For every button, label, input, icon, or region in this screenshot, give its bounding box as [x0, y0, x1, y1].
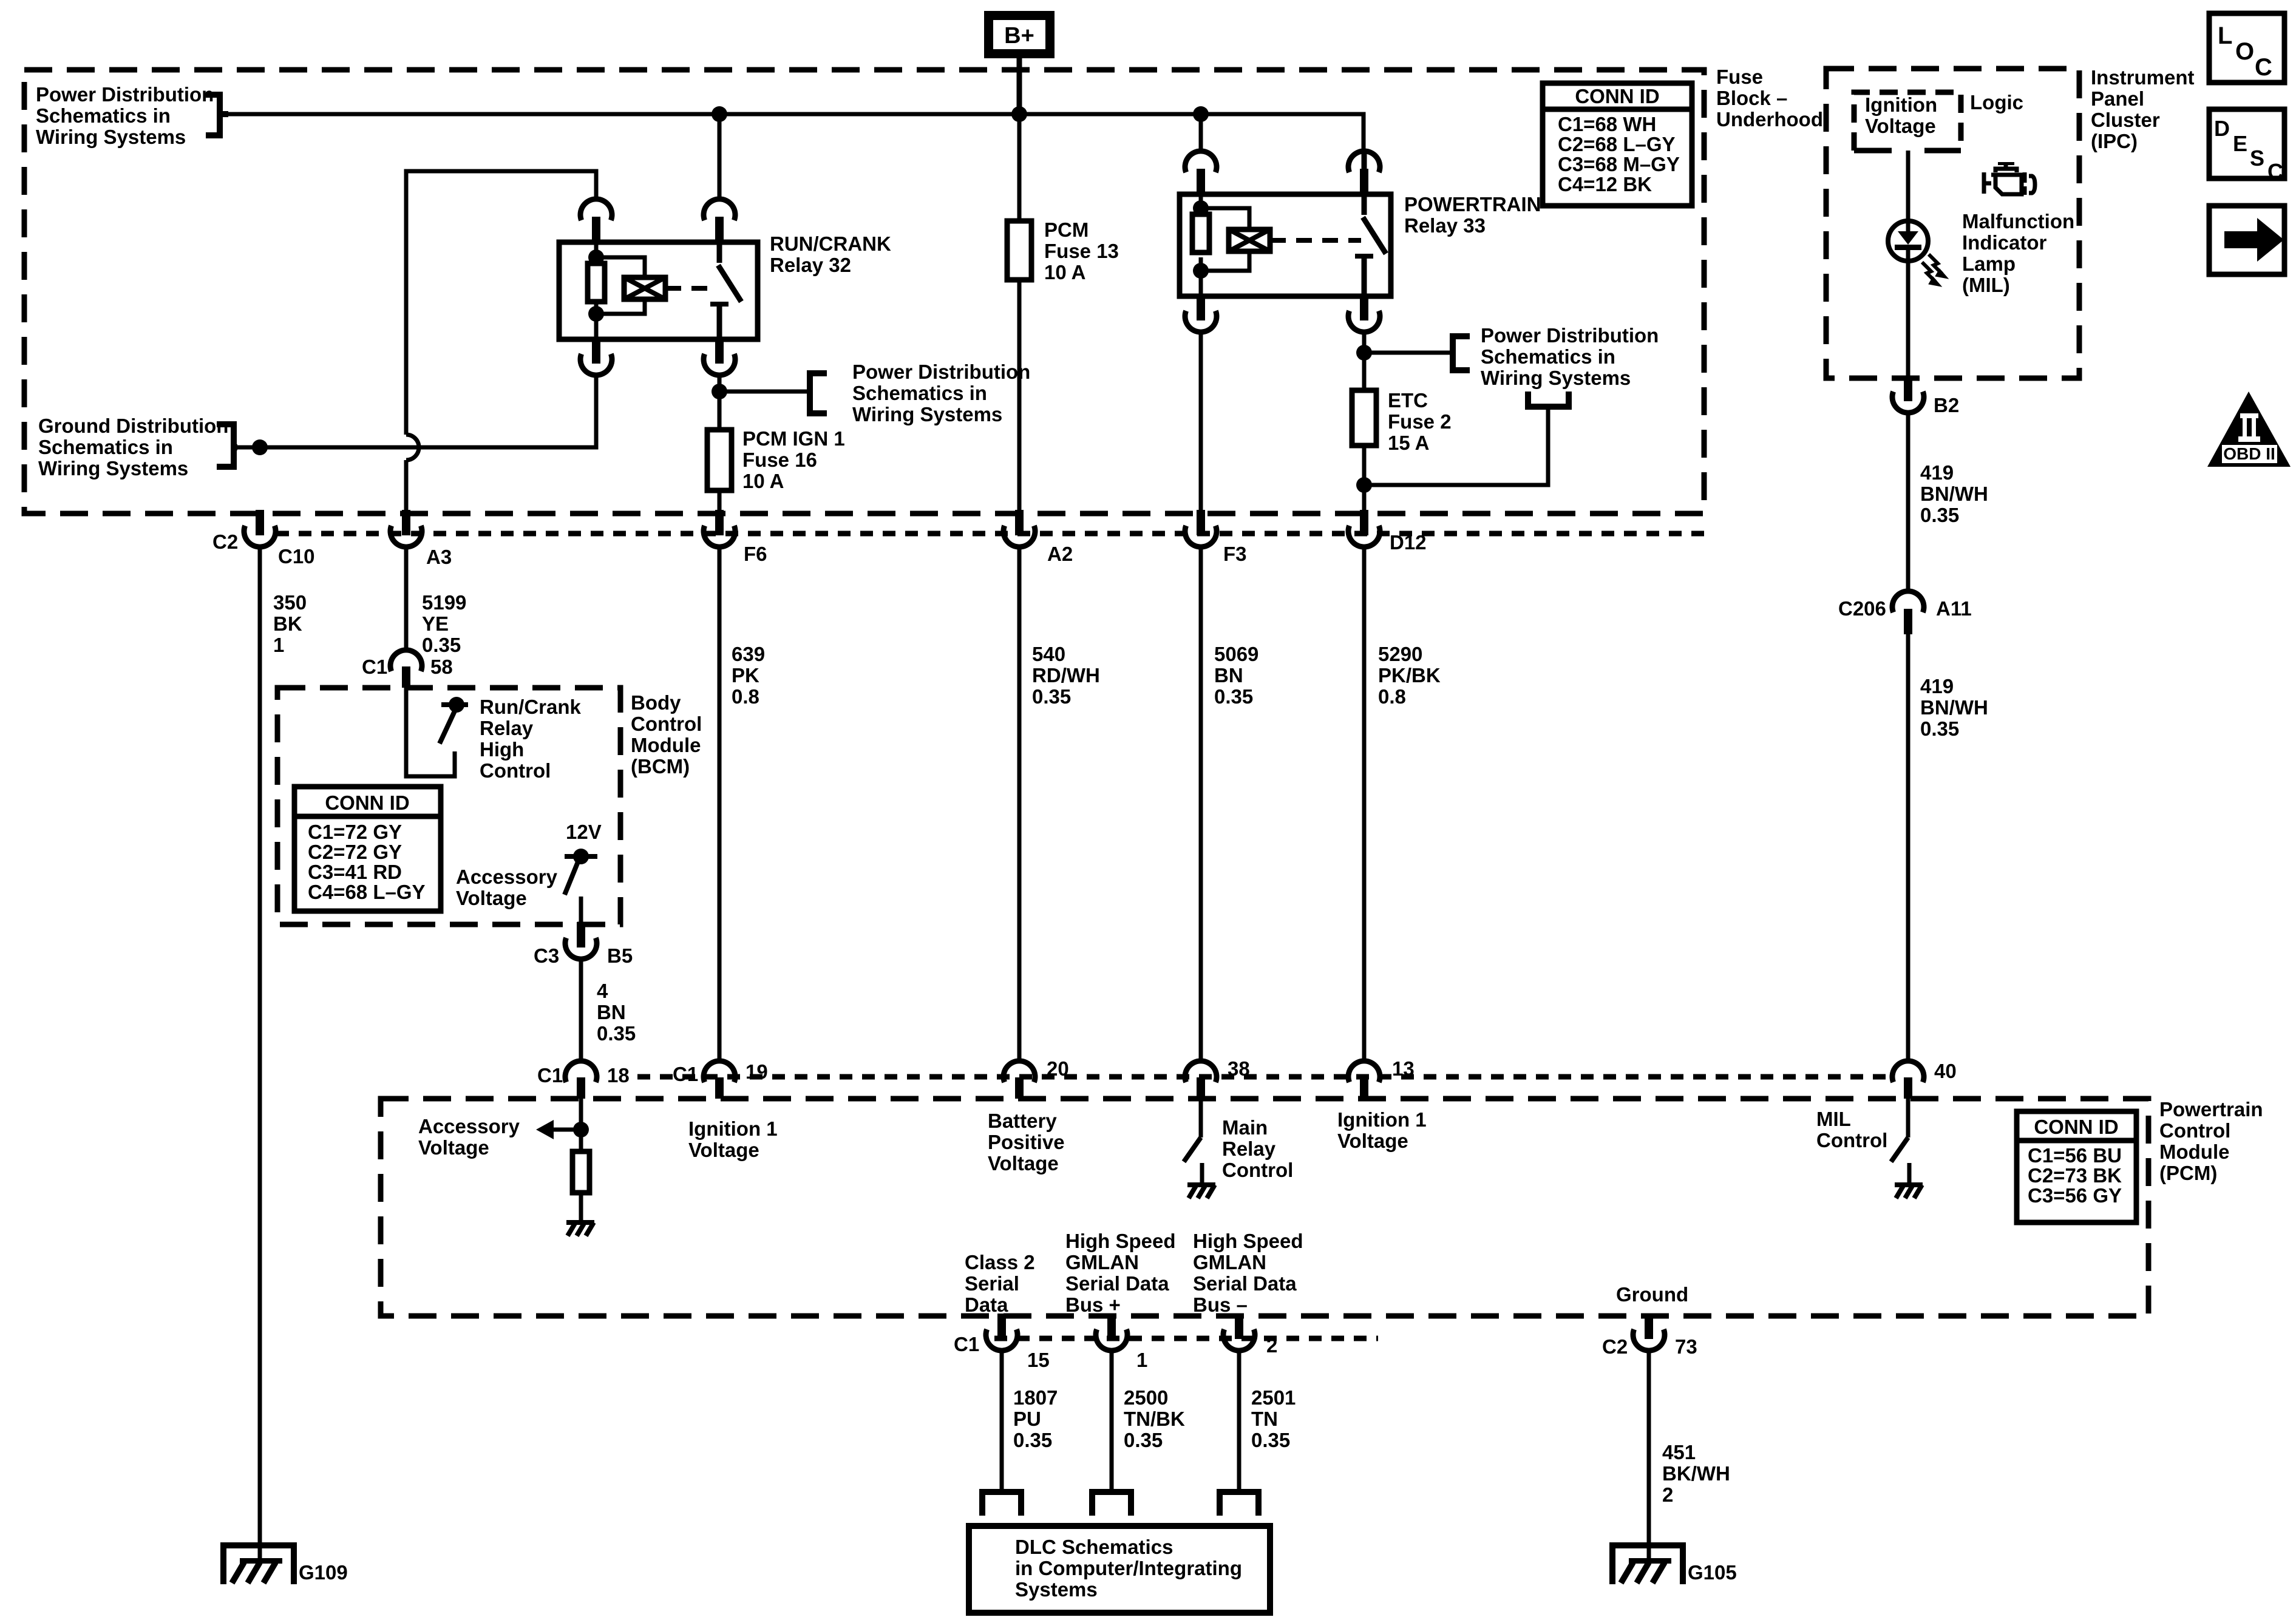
svg-text:Schematics in: Schematics in [1481, 345, 1615, 368]
svg-text:Cluster: Cluster [2091, 109, 2160, 131]
switch: relay 32 contacts [718, 242, 741, 339]
wire: run/crank relay high control loop (A3 to coil) [406, 171, 596, 435]
svg-text:DLC Schematics: DLC Schematics [1015, 1536, 1173, 1558]
svg-text:5290: 5290 [1378, 643, 1422, 665]
table: CONN ID (fuse block underhood) [1543, 83, 1692, 206]
fuse block connector interface dotted line [276, 531, 1704, 537]
svg-text:58: 58 [430, 656, 453, 678]
svg-text:Fuse 2: Fuse 2 [1388, 410, 1452, 433]
svg-text:TN: TN [1251, 1408, 1278, 1430]
wire: A3 drop below hop to interface [404, 460, 409, 511]
connector pin 40 (PCM, MIL control) [1892, 1061, 1924, 1099]
svg-text:Accessory: Accessory [456, 866, 558, 888]
svg-text:Control: Control [480, 759, 551, 782]
svg-text:10 A: 10 A [1044, 261, 1085, 283]
svg-text:Positive: Positive [988, 1131, 1065, 1153]
wire: MIL to IPC connector B2 [1906, 263, 1911, 377]
wire 5199 YE 0.35: A3 down to BCM C1/58 [404, 549, 409, 652]
svg-text:40: 40 [1934, 1060, 1957, 1082]
svg-text:C3=41 RD: C3=41 RD [308, 861, 402, 883]
resistor: relay 32 coil suppression [588, 263, 605, 302]
connector: relay 33 coil terminal (bottom) [1185, 295, 1217, 332]
connector: relay 33 coil terminal (top) [1185, 151, 1217, 194]
svg-text:0.35: 0.35 [1251, 1429, 1290, 1451]
connector pin 20 (PCM) [1004, 1061, 1035, 1099]
svg-text:Ignition 1: Ignition 1 [688, 1117, 778, 1140]
svg-text:20: 20 [1047, 1057, 1069, 1080]
relay K32 RUN/CRANK Relay 32 body [559, 242, 758, 339]
dashed link: relay 32 coil to switch [665, 286, 716, 291]
svg-text:O: O [2235, 38, 2254, 65]
svg-text:D12: D12 [1390, 531, 1427, 554]
svg-text:C2=72 GY: C2=72 GY [308, 841, 402, 863]
svg-text:Schematics in: Schematics in [38, 436, 173, 458]
svg-text:TN/BK: TN/BK [1124, 1408, 1185, 1430]
bracket: ground distribution [217, 424, 237, 467]
svg-text:BN/WH: BN/WH [1920, 696, 1988, 719]
svg-text:CONN ID: CONN ID [325, 792, 409, 814]
wire 419 BN/WH 0.35 (lower) [1906, 634, 1911, 1061]
icon box: LOC [2209, 13, 2284, 83]
svg-text:Serial Data: Serial Data [1065, 1272, 1169, 1295]
svg-text:C1=68 WH: C1=68 WH [1558, 113, 1656, 135]
connector: relay 32 coil terminal (bottom) [580, 338, 612, 375]
fuse: ETC Fuse 2 15 A [1352, 390, 1376, 446]
connector C1 pin 19 (PCM) [704, 1061, 735, 1099]
svg-text:Schematics in: Schematics in [36, 104, 171, 127]
junction: relay 33 coil top [1193, 200, 1209, 216]
wire 4 BN 0.35: B5 down to PCM C1/18 [579, 961, 583, 1061]
svg-text:CONN ID: CONN ID [1575, 85, 1659, 107]
svg-text:Voltage: Voltage [418, 1136, 489, 1159]
svg-text:ETC: ETC [1388, 389, 1428, 412]
svg-text:Power Distribution: Power Distribution [852, 361, 1030, 383]
svg-text:PCM IGN 1: PCM IGN 1 [742, 427, 845, 450]
svg-text:Power Distribution: Power Distribution [1481, 324, 1659, 347]
svg-text:C2: C2 [1602, 1335, 1628, 1358]
svg-text:Control: Control [1816, 1129, 1887, 1151]
icon box: forward arrow [2209, 206, 2284, 274]
svg-text:(PCM): (PCM) [2159, 1162, 2217, 1184]
Instrument Panel Cluster (IPC) dashed box [1826, 69, 2079, 378]
switch: MIL control driver [1891, 1137, 1908, 1162]
wire 5069 BN 0.35: F3 down to PCM 38 [1199, 549, 1203, 1061]
svg-text:Module: Module [631, 734, 701, 756]
switch: BCM accessory voltage output [565, 849, 597, 895]
PCM main relay control driver wire [1199, 1099, 1203, 1137]
PCM bottom connector interface dotted line [994, 1336, 1378, 1341]
wire: ignition voltage to MIL lamp [1906, 151, 1911, 219]
svg-text:Bus +: Bus + [1065, 1293, 1121, 1316]
connector C3 pin B5 (BCM bottom) [565, 922, 597, 959]
svg-text:G109: G109 [299, 1561, 348, 1584]
svg-text:451: 451 [1662, 1441, 1696, 1463]
svg-text:C1: C1 [954, 1333, 979, 1355]
svg-text:5199: 5199 [422, 591, 466, 614]
svg-text:OBD II: OBD II [2223, 444, 2275, 463]
wire: resistor to ground [579, 1193, 583, 1220]
Body Control Module (BCM) dashed box [277, 688, 620, 924]
svg-text:S: S [2250, 146, 2264, 171]
svg-text:419: 419 [1920, 675, 1954, 697]
engine icon (check engine) [1984, 162, 2035, 195]
svg-text:A11: A11 [1936, 597, 1972, 620]
connector pin 13 (PCM) [1348, 1061, 1380, 1099]
connector F6 [704, 510, 735, 547]
svg-text:1: 1 [273, 634, 284, 656]
connector: relay 32 switch terminal (top) [704, 199, 735, 242]
svg-text:Lamp: Lamp [1962, 253, 2016, 275]
svg-text:Run/Crank: Run/Crank [480, 696, 582, 718]
dashed link: relay 33 coil to switch [1270, 238, 1361, 243]
junction: bus / RUN-CRANK relay switch [712, 106, 727, 122]
ground: PCM internal (MIL) [1895, 1182, 1923, 1198]
svg-text:PCM: PCM [1044, 219, 1089, 241]
wire 2501 TN 0.35 [1237, 1353, 1241, 1492]
svg-text:C2: C2 [212, 531, 238, 553]
connector A3 [390, 510, 422, 547]
svg-text:2: 2 [1662, 1483, 1673, 1506]
svg-text:15 A: 15 A [1388, 432, 1429, 454]
connector: relay 33 switch terminal (top) [1348, 151, 1380, 194]
connector C206 pin A11 [1892, 591, 1924, 634]
svg-text:MIL: MIL [1816, 1108, 1851, 1130]
junction: D12 wire / power distribution tap [1356, 345, 1372, 361]
svg-text:B+: B+ [1004, 23, 1034, 49]
svg-text:YE: YE [422, 612, 449, 635]
svg-text:0.35: 0.35 [1124, 1429, 1163, 1451]
connector C2 (fuse block) / C10 on 350 BK wire [244, 510, 276, 547]
svg-text:BN/WH: BN/WH [1920, 483, 1988, 505]
switch: main relay control driver [1184, 1137, 1201, 1162]
svg-text:Data: Data [965, 1293, 1008, 1316]
wire 639 PK 0.8: F6 down to PCM C1/19 [718, 549, 722, 1061]
relay 32 coil circuit wires [596, 242, 645, 339]
svg-text:C206: C206 [1838, 597, 1886, 620]
wire: relay 33 coil return down to F3 [1199, 332, 1203, 511]
svg-text:Systems: Systems [1015, 1578, 1098, 1601]
svg-text:Accessory: Accessory [418, 1115, 520, 1137]
svg-text:High Speed: High Speed [1193, 1230, 1303, 1252]
svg-text:C3=56 GY: C3=56 GY [2028, 1184, 2122, 1207]
svg-text:350: 350 [273, 591, 307, 614]
switch: BCM run/crank relay high control driver [440, 697, 468, 744]
wire hop: A3 over ground distribution [406, 435, 419, 460]
svg-text:CONN ID: CONN ID [2034, 1116, 2118, 1138]
svg-text:Panel: Panel [2091, 87, 2144, 110]
svg-text:Wiring Systems: Wiring Systems [36, 126, 186, 148]
fuse: PCM Fuse 13 10 A [1007, 221, 1031, 280]
svg-text:A2: A2 [1047, 543, 1073, 565]
svg-text:1807: 1807 [1013, 1386, 1058, 1409]
svg-text:0.8: 0.8 [1378, 685, 1406, 708]
bracket: power distribution (right of relay 32) [810, 373, 827, 413]
svg-text:73: 73 [1675, 1335, 1697, 1358]
LED emission arrows [1922, 254, 1948, 286]
connector C1 pin 15 (PCM bottom, class 2 serial) [986, 1314, 1017, 1351]
svg-text:Relay: Relay [1222, 1137, 1276, 1160]
junction: relay 33 coil bottom [1193, 263, 1209, 279]
junction: relay 32 coil bottom [588, 306, 604, 322]
wire: bus drop to relay 32 switch [718, 114, 722, 199]
bracket: power distribution (right of relay 33) [1453, 336, 1470, 370]
junction: ground distribution / 350 BK wire [252, 439, 268, 455]
svg-text:18: 18 [607, 1064, 630, 1086]
svg-text:12V: 12V [566, 821, 602, 843]
junction: accessory voltage branch [573, 1122, 589, 1137]
svg-text:Serial: Serial [965, 1272, 1019, 1295]
terminal bracket: GMLAN- to DLC [1220, 1492, 1258, 1516]
lamp: Malfunction Indicator Lamp (LED) [1888, 219, 1928, 263]
PCM accessory voltage input wire [540, 1099, 581, 1151]
arrow: accessory voltage signal [536, 1120, 554, 1139]
svg-text:PU: PU [1013, 1408, 1041, 1430]
connector F3 [1185, 510, 1217, 547]
coil: relay 33 operate coil [1229, 229, 1270, 251]
wire: bus drop to relay 33 coil [1199, 114, 1203, 151]
wire: ground distribution run to relay 32 coil return [237, 375, 596, 447]
svg-text:Relay 32: Relay 32 [770, 254, 851, 276]
svg-text:F3: F3 [1223, 543, 1247, 565]
svg-text:15: 15 [1027, 1349, 1050, 1371]
PCM top connector interface dotted line [637, 1074, 1894, 1080]
svg-text:GMLAN: GMLAN [1193, 1251, 1266, 1273]
svg-text:F6: F6 [744, 543, 767, 565]
svg-text:Power Distribution: Power Distribution [36, 83, 214, 106]
svg-text:0.35: 0.35 [1920, 717, 1959, 740]
connector C1 pin 58 (BCM) [390, 650, 422, 688]
connector: relay 33 switch terminal (bottom) [1348, 295, 1380, 332]
svg-text:Ignition: Ignition [1865, 93, 1937, 116]
svg-text:C4=68 L–GY: C4=68 L–GY [308, 881, 426, 903]
junction: bus / B+ [1011, 106, 1027, 122]
ground G109 [223, 1545, 294, 1584]
svg-text:19: 19 [746, 1060, 768, 1083]
svg-text:BK: BK [273, 612, 302, 635]
Fuse Block - Underhood dashed box [24, 70, 1704, 514]
connector: relay 32 switch terminal (bottom) [704, 338, 735, 375]
dashed box: Ignition Voltage (IPC logic supply) [1854, 92, 1961, 151]
svg-text:Relay 33: Relay 33 [1404, 214, 1486, 237]
svg-text:C: C [2255, 54, 2272, 81]
svg-text:Control: Control [1222, 1159, 1293, 1181]
svg-text:2501: 2501 [1251, 1386, 1296, 1409]
svg-text:C1: C1 [673, 1063, 698, 1085]
wire: relay 32 switch output down to F6 [718, 375, 722, 511]
relay K33 POWERTRAIN Relay 33 body [1180, 194, 1391, 296]
svg-text:C1: C1 [537, 1064, 563, 1086]
connector A2 [1004, 510, 1035, 547]
wire: B+ drop to bus [1017, 58, 1022, 114]
svg-text:Logic: Logic [1970, 91, 2023, 114]
coil: relay 32 operate coil [624, 277, 665, 299]
svg-text:C3: C3 [534, 944, 559, 967]
svg-text:BN: BN [1214, 664, 1243, 686]
connector C1 pin 18 (PCM) [565, 1061, 597, 1099]
PCM MIL control driver wire [1906, 1099, 1911, 1137]
connector: relay 32 coil terminal (top) [580, 199, 612, 242]
svg-text:Ignition 1: Ignition 1 [1337, 1108, 1427, 1131]
ground: PCM internal (accessory) [566, 1220, 594, 1236]
svg-text:Schematics in: Schematics in [852, 382, 987, 404]
svg-text:Body: Body [631, 691, 681, 714]
svg-text:Voltage: Voltage [456, 887, 527, 909]
svg-text:C4=12 BK: C4=12 BK [1558, 173, 1652, 195]
BCM run/crank relay high control driver wires [406, 688, 455, 776]
svg-text:Module: Module [2159, 1141, 2229, 1163]
switch: relay 33 contacts [1363, 151, 1386, 296]
svg-text:Control: Control [631, 713, 702, 735]
svg-text:Block –: Block – [1716, 87, 1787, 109]
wire: B+ bus down through PCM fuse 13 to A2 [1017, 114, 1022, 511]
connector C2 pin 73 (PCM bottom ground) [1633, 1314, 1665, 1351]
wire: bracket return to ETC fuse output [1364, 407, 1548, 485]
wire 1807 PU 0.35 [1000, 1353, 1004, 1492]
svg-text:BN: BN [597, 1001, 626, 1023]
junction: bus / POWERTRAIN relay coil [1193, 106, 1209, 122]
svg-text:Class 2: Class 2 [965, 1251, 1035, 1273]
junction: ETC fuse output [1356, 477, 1372, 493]
terminal bracket: GMLAN+ to DLC [1092, 1492, 1131, 1516]
connector pin 38 (PCM) [1185, 1061, 1217, 1099]
connector pin 1 (PCM bottom, GMLAN +) [1096, 1314, 1127, 1351]
svg-text:0.35: 0.35 [1013, 1429, 1052, 1451]
wire 2500 TN/BK 0.35 [1110, 1353, 1114, 1492]
svg-text:Wiring Systems: Wiring Systems [38, 457, 188, 480]
svg-text:Fuse 13: Fuse 13 [1044, 240, 1119, 262]
svg-text:Serial Data: Serial Data [1193, 1272, 1297, 1295]
relay 33 coil circuit wires [1201, 194, 1249, 296]
svg-text:(BCM): (BCM) [631, 755, 690, 778]
svg-text:B5: B5 [607, 944, 633, 967]
svg-text:0.8: 0.8 [732, 685, 759, 708]
svg-text:Fuse 16: Fuse 16 [742, 449, 817, 471]
icon box: DESC [2209, 109, 2284, 184]
svg-text:C3=68 M–GY: C3=68 M–GY [1558, 153, 1680, 175]
svg-text:Main: Main [1222, 1116, 1268, 1139]
wire 350 BK 1: C10 down to G109 [258, 549, 262, 1562]
svg-text:38: 38 [1228, 1057, 1250, 1080]
svg-text:1: 1 [1136, 1349, 1147, 1371]
svg-text:PK: PK [732, 664, 759, 686]
resistor: PCM accessory voltage pull-down [572, 1151, 589, 1193]
svg-text:Relay: Relay [480, 717, 534, 739]
ground G105 [1612, 1545, 1683, 1584]
svg-text:419: 419 [1920, 461, 1954, 484]
connector pin 2 (PCM bottom, GMLAN -) [1223, 1314, 1255, 1351]
svg-text:C10: C10 [278, 545, 315, 568]
svg-text:C: C [2267, 159, 2283, 184]
wire: relay 33 switch output down to D12 [1362, 332, 1367, 511]
svg-text:C2=68 L–GY: C2=68 L–GY [1558, 133, 1676, 155]
svg-text:C1=56 BU: C1=56 BU [2028, 1144, 2122, 1167]
svg-text:C2=73 BK: C2=73 BK [2028, 1164, 2122, 1187]
terminal bracket: class 2 serial to DLC [982, 1492, 1021, 1516]
svg-text:Ground: Ground [1616, 1283, 1688, 1306]
svg-text:Instrument: Instrument [2091, 66, 2195, 89]
table: CONN ID (BCM) [294, 787, 441, 911]
svg-text:4: 4 [597, 980, 608, 1002]
svg-text:PK/BK: PK/BK [1378, 664, 1441, 686]
bracket: power distribution feed [206, 95, 228, 135]
Powertrain Control Module (PCM) dashed box [381, 1099, 2148, 1316]
fuse: PCM IGN 1 Fuse 16 10 A [707, 430, 732, 490]
wire: tap to power distribution bracket [719, 390, 810, 394]
svg-text:L: L [2218, 22, 2232, 49]
connector B2 (IPC bottom) [1892, 376, 1924, 413]
svg-text:A3: A3 [426, 546, 452, 568]
junction: relay 32 output / power distribution tap [712, 384, 727, 399]
connector D12 [1348, 510, 1380, 547]
resistor: relay 33 coil suppression [1192, 214, 1209, 253]
svg-text:5069: 5069 [1214, 643, 1258, 665]
svg-text:GMLAN: GMLAN [1065, 1251, 1139, 1273]
wire: battery positive bus [228, 114, 1364, 151]
svg-text:Ground Distribution: Ground Distribution [38, 415, 228, 437]
svg-text:Underhood: Underhood [1716, 108, 1823, 131]
svg-text:D: D [2214, 116, 2230, 141]
ground: PCM internal (main relay) [1187, 1182, 1215, 1198]
wire 5290 PK/BK 0.8: D12 down to PCM 13 [1362, 549, 1367, 1061]
svg-text:13: 13 [1392, 1057, 1415, 1080]
svg-text:Malfunction: Malfunction [1962, 210, 2074, 232]
svg-text:2500: 2500 [1124, 1386, 1168, 1409]
svg-text:RUN/CRANK: RUN/CRANK [770, 232, 891, 255]
svg-text:Powertrain: Powertrain [2159, 1098, 2263, 1120]
svg-text:BK/WH: BK/WH [1662, 1462, 1730, 1485]
svg-text:B2: B2 [1934, 394, 1959, 416]
svg-text:POWERTRAIN: POWERTRAIN [1404, 193, 1541, 215]
svg-text:E: E [2233, 131, 2247, 156]
svg-text:0.35: 0.35 [1032, 685, 1071, 708]
svg-text:Battery: Battery [988, 1110, 1057, 1132]
svg-text:10 A: 10 A [742, 470, 784, 492]
svg-text:540: 540 [1032, 643, 1065, 665]
svg-text:Indicator: Indicator [1962, 231, 2047, 254]
svg-text:0.35: 0.35 [1214, 685, 1253, 708]
junction: relay 32 coil top [588, 249, 604, 265]
svg-text:High Speed: High Speed [1065, 1230, 1176, 1252]
svg-text:Voltage: Voltage [1337, 1130, 1408, 1152]
svg-text:Wiring Systems: Wiring Systems [852, 403, 1002, 425]
svg-text:2: 2 [1266, 1334, 1277, 1357]
box: DLC Schematics in Computer/Integrating Systems [969, 1526, 1270, 1613]
wire 451 BK/WH 2: to G105 [1647, 1353, 1651, 1562]
svg-text:C1=72 GY: C1=72 GY [308, 821, 402, 843]
bracket: under Wiring Systems return [1528, 392, 1569, 407]
svg-text:0.35: 0.35 [422, 634, 461, 656]
svg-text:G105: G105 [1688, 1561, 1737, 1584]
table: CONN ID (PCM) [2017, 1111, 2136, 1222]
svg-text:Voltage: Voltage [688, 1139, 759, 1161]
svg-text:RD/WH: RD/WH [1032, 664, 1100, 686]
wire: tap to power distribution bracket (right) [1364, 351, 1453, 355]
svg-text:Control: Control [2159, 1119, 2230, 1142]
svg-text:Fuse: Fuse [1716, 66, 1763, 88]
svg-text:Voltage: Voltage [988, 1152, 1059, 1175]
wire 419 BN/WH 0.35 (upper) [1906, 415, 1911, 592]
wire: accessory voltage to C3/B5 [579, 897, 583, 923]
svg-text:in Computer/Integrating: in Computer/Integrating [1015, 1557, 1242, 1579]
svg-text:639: 639 [732, 643, 765, 665]
icon: OBD II triangle [2207, 392, 2291, 467]
svg-text:Voltage: Voltage [1865, 115, 1936, 137]
svg-text:(IPC): (IPC) [2091, 130, 2138, 152]
svg-text:C1: C1 [362, 656, 387, 678]
svg-text:0.35: 0.35 [1920, 504, 1959, 526]
svg-text:0.35: 0.35 [597, 1022, 636, 1045]
svg-text:Bus –: Bus – [1193, 1293, 1248, 1316]
